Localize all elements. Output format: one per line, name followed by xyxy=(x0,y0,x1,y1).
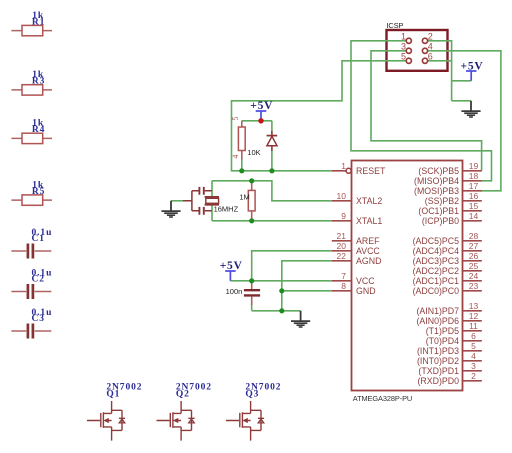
svg-text:(ADC0)PC0: (ADC0)PC0 xyxy=(413,286,460,296)
svg-text:(TXD)PD1: (TXD)PD1 xyxy=(418,366,459,376)
svg-text:21: 21 xyxy=(337,231,347,241)
resistor R3 xyxy=(11,70,52,95)
svg-text:(ADC1)PC1: (ADC1)PC1 xyxy=(413,276,460,286)
svg-text:+5V: +5V xyxy=(250,100,273,112)
junction dots VCC/GND nets xyxy=(249,278,254,283)
svg-text:7: 7 xyxy=(341,271,346,281)
resistor 10K pullup xyxy=(231,117,261,160)
capacitor C1 xyxy=(11,228,52,259)
svg-text:(ADC2)PC2: (ADC2)PC2 xyxy=(413,266,460,276)
svg-text:C2: C2 xyxy=(32,275,45,285)
IC U1 ATMEGA328P-PU body xyxy=(352,161,463,403)
svg-text:+5V: +5V xyxy=(460,60,483,72)
svg-text:C3: C3 xyxy=(32,314,45,324)
svg-text:24: 24 xyxy=(469,271,479,281)
svg-text:27: 27 xyxy=(469,241,479,251)
svg-text:(SCK)PB5: (SCK)PB5 xyxy=(418,166,459,176)
wire VCC net xyxy=(230,251,331,281)
IC pin stubs xyxy=(332,171,482,381)
IC pin names xyxy=(356,166,459,386)
svg-text:(SS)PB2: (SS)PB2 xyxy=(425,196,459,206)
junction dots XTAL nets xyxy=(249,178,254,183)
svg-text:(ICP)PB0: (ICP)PB0 xyxy=(422,216,459,226)
svg-text:26: 26 xyxy=(469,251,479,261)
junction dots reset net xyxy=(239,168,244,173)
svg-text:AREF: AREF xyxy=(356,236,380,246)
diode D (reset protection) xyxy=(267,131,278,151)
resistor R4 xyxy=(11,119,52,144)
ground (ICSP) xyxy=(461,101,480,117)
transistor Q1 xyxy=(87,401,125,441)
svg-text:19: 19 xyxy=(469,161,479,171)
ICSP header box xyxy=(386,21,447,71)
IC pin numbers xyxy=(337,161,479,381)
svg-text:4: 4 xyxy=(231,155,240,159)
svg-text:9: 9 xyxy=(341,211,346,221)
svg-text:13: 13 xyxy=(469,301,479,311)
capacitor C2 xyxy=(11,268,52,299)
svg-text:R3: R3 xyxy=(32,77,45,87)
transistor Q2 xyxy=(157,401,195,441)
svg-text:1: 1 xyxy=(401,32,406,42)
resistor R1 xyxy=(11,11,52,36)
capacitor 100n xyxy=(226,281,260,305)
ground (100n) xyxy=(291,311,310,327)
transistor Q3 xyxy=(226,401,264,441)
svg-text:5: 5 xyxy=(471,341,476,351)
svg-text:4: 4 xyxy=(471,351,476,361)
resonator 16MHZ xyxy=(183,187,219,215)
svg-text:XTAL1: XTAL1 xyxy=(356,216,382,226)
resistor 1M xyxy=(239,181,255,221)
svg-text:+5V: +5V xyxy=(220,260,243,272)
svg-text:R4: R4 xyxy=(32,125,45,135)
wire 10K bottom / diode leads green xyxy=(242,121,272,171)
svg-text:GND: GND xyxy=(356,286,376,296)
svg-text:6: 6 xyxy=(471,331,476,341)
svg-text:(OC1)PB1: (OC1)PB1 xyxy=(418,206,459,216)
svg-text:8: 8 xyxy=(341,281,346,291)
wire ICSP pin3 to PB5(SCK) xyxy=(371,51,482,171)
svg-text:14: 14 xyxy=(469,211,479,221)
svg-text:2: 2 xyxy=(471,371,476,381)
svg-text:18: 18 xyxy=(469,171,479,181)
svg-text:Q2: Q2 xyxy=(176,389,190,399)
wire ICSP pin6 to ground xyxy=(428,61,471,101)
wire XTAL1 net xyxy=(212,220,332,222)
svg-text:(T0)PD4: (T0)PD4 xyxy=(426,336,459,346)
svg-text:28: 28 xyxy=(469,231,479,241)
svg-text:(ADC3)PC3: (ADC3)PC3 xyxy=(413,256,460,266)
svg-text:VCC: VCC xyxy=(356,276,375,286)
svg-text:AVCC: AVCC xyxy=(356,246,380,256)
+5V supply (ICSP) xyxy=(460,60,483,81)
svg-text:5: 5 xyxy=(231,117,240,121)
svg-text:(MISO)PB4: (MISO)PB4 xyxy=(414,176,459,186)
svg-text:(AIN0)PD6: (AIN0)PD6 xyxy=(416,316,459,326)
svg-text:(RXD)PD0: (RXD)PD0 xyxy=(417,376,459,386)
wire resonator ground xyxy=(171,200,183,202)
svg-text:(ADC4)PC4: (ADC4)PC4 xyxy=(413,246,460,256)
svg-text:R5: R5 xyxy=(32,187,45,197)
svg-text:4: 4 xyxy=(428,42,433,52)
svg-text:23: 23 xyxy=(469,281,479,291)
wire XTAL2 net xyxy=(212,181,332,221)
ICSP pin numbers xyxy=(401,32,433,62)
+5V supply (reset pullup) xyxy=(250,100,273,121)
svg-text:10: 10 xyxy=(337,191,347,201)
svg-text:Q3: Q3 xyxy=(245,389,259,399)
svg-text:AGND: AGND xyxy=(356,256,381,266)
capacitor C3 xyxy=(11,308,52,339)
svg-text:ATMEGA328P-PU: ATMEGA328P-PU xyxy=(353,394,412,403)
svg-text:(INT0)PD2: (INT0)PD2 xyxy=(417,356,459,366)
wire ICSP pin2 to +5V xyxy=(428,41,472,101)
svg-text:25: 25 xyxy=(469,261,479,271)
svg-text:17: 17 xyxy=(469,181,479,191)
junction red dot +5V/reset xyxy=(258,118,263,123)
svg-text:(MOSI)PB3: (MOSI)PB3 xyxy=(414,186,459,196)
svg-text:XTAL2: XTAL2 xyxy=(356,196,382,206)
svg-text:3: 3 xyxy=(401,42,406,52)
svg-text:(INT1)PD3: (INT1)PD3 xyxy=(417,346,459,356)
wire RESET pullup top bar xyxy=(242,120,272,122)
svg-text:20: 20 xyxy=(337,241,347,251)
svg-text:(ADC5)PC5: (ADC5)PC5 xyxy=(413,236,460,246)
svg-text:12: 12 xyxy=(469,311,479,321)
wire ICSP pin5 to RESET net xyxy=(232,61,407,171)
svg-text:RESET: RESET xyxy=(356,166,386,176)
svg-text:Q1: Q1 xyxy=(106,389,120,399)
svg-text:22: 22 xyxy=(337,251,347,261)
svg-text:2: 2 xyxy=(428,32,433,42)
svg-text:15: 15 xyxy=(469,201,479,211)
ICSP pin circles xyxy=(406,38,427,63)
svg-text:5: 5 xyxy=(401,52,406,62)
svg-text:3: 3 xyxy=(471,361,476,371)
wire AGND/GND net xyxy=(252,261,332,311)
svg-text:16MHZ: 16MHZ xyxy=(214,204,239,213)
wire ICSP pin4 to PB3(MOSI) xyxy=(428,51,501,191)
RESET pin inversion bubble xyxy=(346,168,351,173)
wire ICSP pin1 to PB4(MISO) xyxy=(351,41,492,181)
+5V supply (VCC) xyxy=(220,260,243,281)
svg-text:(T1)PD5: (T1)PD5 xyxy=(426,326,459,336)
svg-text:ICSP: ICSP xyxy=(386,21,403,30)
svg-text:C1: C1 xyxy=(32,234,45,244)
svg-text:16: 16 xyxy=(469,191,479,201)
svg-text:1M: 1M xyxy=(239,193,249,202)
svg-text:R1: R1 xyxy=(32,17,45,27)
ground (resonator) xyxy=(161,201,180,217)
resistor R5 xyxy=(11,180,52,205)
svg-text:100n: 100n xyxy=(226,287,243,296)
svg-text:10K: 10K xyxy=(247,148,260,157)
svg-text:11: 11 xyxy=(469,321,478,331)
svg-text:6: 6 xyxy=(428,52,433,62)
svg-text:1: 1 xyxy=(341,161,346,171)
svg-text:(AIN1)PD7: (AIN1)PD7 xyxy=(416,306,459,316)
